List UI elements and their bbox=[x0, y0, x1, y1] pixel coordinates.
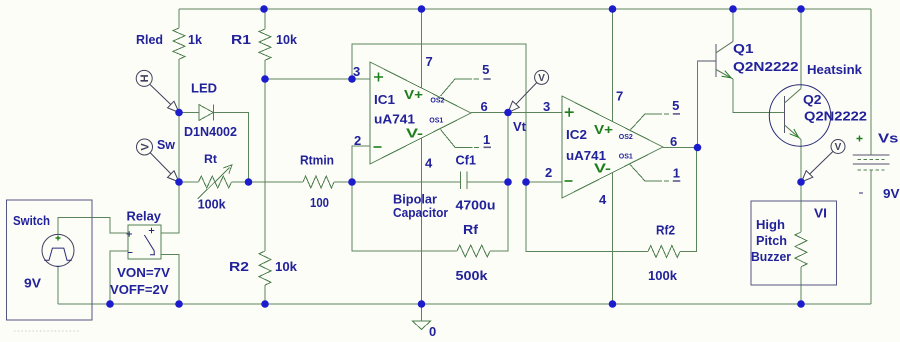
wire Q1 collector to top rail bbox=[732, 9, 734, 41]
op-amp IC1 pin 1 stub OS1 bbox=[441, 130, 479, 148]
ground 0 bbox=[421, 304, 423, 321]
svg-text:High: High bbox=[756, 217, 785, 232]
svg-text:Relay: Relay bbox=[127, 209, 162, 224]
svg-text:V+: V+ bbox=[404, 87, 423, 102]
wire relay + right to left rail bbox=[161, 232, 179, 234]
svg-text:9V: 9V bbox=[883, 186, 900, 201]
svg-text:0: 0 bbox=[429, 324, 436, 339]
pulse source V1 circle bbox=[42, 234, 74, 266]
wire IC2 output node up to Q1 base bbox=[698, 61, 717, 148]
wire R1 column top bbox=[264, 9, 266, 29]
svg-text:5: 5 bbox=[482, 62, 489, 77]
svg-text:Pitch: Pitch bbox=[756, 233, 787, 248]
wire LED anode lead bbox=[179, 112, 199, 114]
svg-text:VOFF=2V: VOFF=2V bbox=[110, 282, 169, 297]
wire battery column bbox=[870, 9, 872, 304]
wire Q1 emitter to Q2 base bbox=[733, 79, 785, 112]
node LED anode bbox=[175, 109, 183, 117]
wire IC2 pin7 from top rail bbox=[612, 9, 614, 122]
svg-text:Vs: Vs bbox=[878, 131, 899, 146]
op-amp IC2 pin 1 stub OS1 bbox=[630, 165, 669, 182]
svg-text:IC2: IC2 bbox=[566, 127, 587, 142]
wire left column V+ rail bbox=[178, 9, 180, 234]
svg-text:H: H bbox=[137, 74, 149, 82]
svg-text:R1: R1 bbox=[231, 32, 251, 47]
wire IC2 pin2 node to IC2 bbox=[526, 181, 562, 183]
svg-text:7: 7 bbox=[426, 54, 433, 69]
svg-text:Rf2: Rf2 bbox=[656, 223, 675, 238]
svg-text:V-: V- bbox=[594, 161, 611, 176]
svg-text:V-: V- bbox=[406, 126, 423, 141]
wire relay - right to rail bbox=[161, 255, 179, 305]
svg-text:7: 7 bbox=[616, 89, 623, 104]
variable resistor Rt 100k bbox=[199, 176, 232, 188]
svg-text:Q2: Q2 bbox=[803, 92, 822, 107]
transistor Q1 Q2N2222 bbox=[715, 44, 717, 77]
wire divider column down to R2 bbox=[264, 79, 266, 251]
node rail IC2 pin4 bbox=[609, 300, 617, 308]
wire node to Rtmin bbox=[249, 181, 304, 183]
wire switch bottom to rail bbox=[57, 267, 59, 305]
node rail relay bbox=[175, 300, 183, 308]
wire LED cathode to Rt right node bbox=[213, 113, 248, 183]
svg-text:Switch: Switch bbox=[13, 213, 50, 228]
svg-text:V+: V+ bbox=[594, 122, 613, 137]
probe V marker VI bbox=[831, 140, 845, 154]
probe V marker Vt bbox=[535, 70, 549, 84]
pulse source plus mark bbox=[56, 236, 61, 241]
svg-text:VI: VI bbox=[814, 206, 827, 221]
relay contact arm bbox=[144, 235, 154, 254]
svg-text:V: V bbox=[140, 143, 152, 151]
wire bottom rail bbox=[58, 303, 871, 305]
svg-text:Rled: Rled bbox=[136, 32, 163, 47]
node rail R2 bbox=[261, 300, 269, 308]
wire Rt right lead to node bbox=[232, 181, 249, 183]
svg-text:Sw: Sw bbox=[157, 137, 176, 152]
wire Cf1 right to cap node bbox=[467, 181, 508, 183]
resistor Rf 500k bbox=[457, 245, 490, 257]
svg-text:1: 1 bbox=[483, 132, 490, 147]
svg-text:Buzzer: Buzzer bbox=[751, 249, 791, 264]
wire IC2 pin4 to rail bbox=[612, 173, 614, 305]
resistor Rf2 100k bbox=[648, 246, 680, 258]
relay box bbox=[128, 225, 161, 259]
wire R1 bottom to divider node bbox=[264, 60, 266, 79]
op-amp IC2 pin 5 stub OS2 bbox=[630, 114, 669, 130]
op-amp IC2 plus input mark bbox=[565, 108, 574, 117]
wire big node to Cf1 bbox=[352, 181, 460, 183]
svg-text:6: 6 bbox=[481, 99, 488, 114]
svg-text:uA741: uA741 bbox=[374, 112, 415, 127]
svg-text:Heatsink: Heatsink bbox=[807, 62, 863, 77]
wire Vt node drop to cap node bbox=[507, 113, 509, 183]
node rail ground bbox=[418, 300, 426, 308]
svg-text:100k: 100k bbox=[198, 197, 227, 212]
node Rt left bbox=[175, 178, 183, 186]
capacitor Cf1 4700u bipolar bbox=[460, 172, 467, 190]
svg-text:2: 2 bbox=[354, 133, 361, 148]
battery Vs 9V bbox=[853, 155, 890, 164]
wire IC1 output row to IC2 pin3 bbox=[471, 112, 562, 114]
node Rt right bbox=[245, 178, 253, 186]
svg-text:LED: LED bbox=[191, 81, 217, 96]
svg-text:OS2: OS2 bbox=[430, 97, 444, 104]
wire IC1 pin7 from top rail bbox=[421, 9, 423, 88]
pulse source minus mark bbox=[57, 265, 60, 267]
wire Rt left lead bbox=[179, 181, 199, 183]
svg-text:5: 5 bbox=[672, 98, 679, 113]
resistor R2 10k bbox=[259, 251, 271, 285]
svg-text:Capacitor: Capacitor bbox=[393, 205, 448, 220]
svg-text:Q2N2222: Q2N2222 bbox=[733, 59, 799, 74]
svg-text:VON=7V: VON=7V bbox=[117, 265, 170, 280]
svg-text:IC1: IC1 bbox=[374, 92, 395, 107]
node IC1 pin3 bbox=[348, 75, 356, 83]
node Vt bbox=[504, 109, 512, 117]
svg-text:Rt: Rt bbox=[204, 152, 217, 166]
wire IC1 pin2 drop bbox=[352, 146, 370, 182]
node divider R1 R2 bbox=[261, 75, 269, 83]
svg-text:OS2: OS2 bbox=[619, 134, 633, 141]
svg-text:OS1: OS1 bbox=[429, 117, 443, 124]
svg-text:6: 6 bbox=[670, 134, 677, 149]
svg-text:1k: 1k bbox=[188, 32, 203, 47]
buzzer resistor element bbox=[795, 232, 807, 267]
probe H marker bbox=[136, 70, 152, 86]
transistor Q2 Q2N2222 with heatsink circle bbox=[769, 85, 830, 146]
resistor Rled 1k bbox=[173, 28, 185, 59]
op-amp IC2 minus input mark bbox=[565, 180, 573, 182]
svg-text:100: 100 bbox=[310, 195, 329, 210]
svg-text:R2: R2 bbox=[229, 259, 249, 274]
svg-text:9V: 9V bbox=[24, 276, 41, 291]
svg-text:4: 4 bbox=[425, 156, 433, 171]
svg-text:2: 2 bbox=[545, 165, 552, 180]
LED diode D1N4002 bbox=[199, 105, 214, 121]
svg-text:1: 1 bbox=[673, 166, 680, 181]
svg-text:3: 3 bbox=[543, 99, 550, 114]
op-amp IC1 minus input mark bbox=[374, 146, 382, 148]
probe V marker Sw bbox=[137, 139, 153, 155]
wire top rail bbox=[179, 8, 871, 10]
svg-text:Q1: Q1 bbox=[733, 41, 754, 56]
node dots top rail bbox=[260, 5, 268, 13]
wire Q2 emitter down through buzzer bbox=[800, 140, 802, 305]
svg-text:Rf: Rf bbox=[463, 222, 479, 237]
svg-text:100k: 100k bbox=[648, 268, 678, 283]
resistor Rtmin 100 bbox=[303, 176, 334, 188]
wire Rtmin to big node bbox=[334, 181, 352, 183]
wire node divider to IC1 pin3 bbox=[265, 78, 370, 80]
svg-text:4: 4 bbox=[599, 192, 607, 207]
wire pin3 node up over to IC2 pin2 column bbox=[352, 44, 526, 182]
op-amp IC1 pin 5 stub OS2 bbox=[441, 79, 480, 96]
node rail switch bbox=[106, 300, 114, 308]
wire IC1 pin4 to rail bbox=[421, 138, 423, 304]
wire IC2 output to node bbox=[663, 147, 698, 149]
node rail buzzer bbox=[797, 300, 805, 308]
wire R2 bottom to rail bbox=[264, 285, 266, 304]
op-amp U1 IC1 uA741 triangle bbox=[370, 62, 471, 164]
faint dotted artifact line bottom left bbox=[14, 330, 80, 332]
node cap output bbox=[504, 178, 512, 186]
svg-text:OS1: OS1 bbox=[619, 153, 633, 160]
svg-text:Rtmin: Rtmin bbox=[300, 153, 334, 168]
svg-text:Vt: Vt bbox=[513, 119, 527, 134]
node IC2 output bbox=[694, 144, 702, 152]
wire relay - left to rail bbox=[110, 251, 128, 304]
buzzer box bbox=[751, 201, 837, 285]
wire Q2 collector to top rail bbox=[800, 9, 802, 89]
svg-text:10k: 10k bbox=[276, 32, 298, 47]
node IC1 pin2 feedback bbox=[348, 178, 356, 186]
resistor R1 10k bbox=[259, 29, 271, 60]
svg-text:D1N4002: D1N4002 bbox=[184, 124, 237, 139]
svg-text:V: V bbox=[538, 73, 545, 84]
op-amp U2 IC2 uA741 triangle bbox=[562, 96, 663, 198]
svg-text:V: V bbox=[835, 142, 842, 153]
switch box bbox=[6, 200, 92, 320]
op-amp IC1 plus input mark bbox=[374, 73, 383, 82]
svg-text:4700u: 4700u bbox=[456, 197, 496, 212]
node Q2 emitter bbox=[797, 178, 805, 186]
wire Rf2 feedback loop bbox=[526, 148, 697, 252]
svg-text:Q2N2222: Q2N2222 bbox=[804, 109, 867, 124]
svg-text:10k: 10k bbox=[275, 259, 298, 274]
node IC2 pin2 bbox=[522, 178, 530, 186]
wire Rf feedback loop bbox=[352, 182, 508, 251]
svg-text:500k: 500k bbox=[456, 268, 489, 283]
svg-text:Cf1: Cf1 bbox=[456, 153, 477, 168]
wire switch top to relay + left bbox=[58, 218, 128, 235]
pulse source waveform bbox=[44, 248, 72, 260]
relay pin marks bbox=[127, 228, 156, 255]
